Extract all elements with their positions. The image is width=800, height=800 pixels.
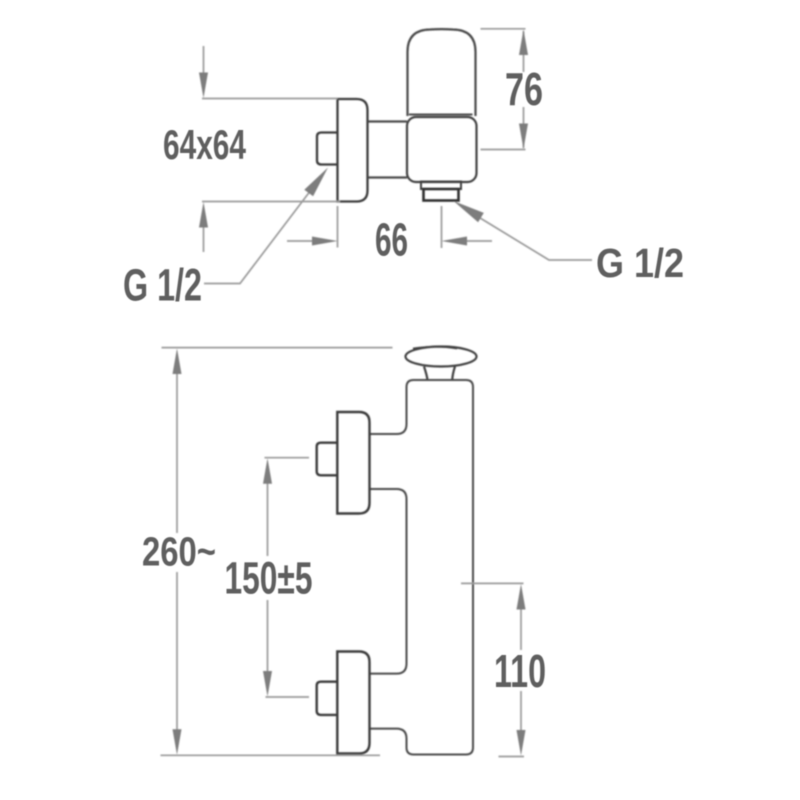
svg-text:G 1/2: G 1/2: [123, 260, 202, 311]
svg-text:110: 110: [494, 645, 546, 697]
svg-text:64x64: 64x64: [163, 121, 246, 168]
svg-text:150±5: 150±5: [225, 553, 313, 604]
svg-text:66: 66: [375, 214, 408, 266]
svg-text:76: 76: [505, 63, 543, 115]
svg-text:260~: 260~: [142, 529, 216, 575]
svg-text:G 1/2: G 1/2: [596, 240, 684, 286]
